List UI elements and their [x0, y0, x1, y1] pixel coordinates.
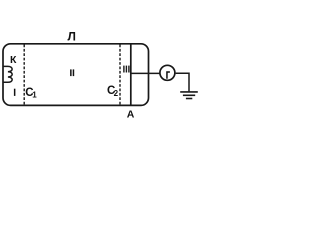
wire anode to galvanometer	[131, 72, 160, 74]
anode hatching (III marks)	[123, 66, 124, 73]
region I label	[14, 89, 16, 96]
svg-text:1: 1	[32, 91, 37, 100]
wire galvanometer to ground	[176, 73, 189, 91]
label Г (galvanometer letter)	[166, 71, 170, 79]
svg-text:Л: Л	[67, 30, 75, 44]
cathode heater K (filament coil on left wall)	[3, 66, 12, 82]
grid C2 (dashed)	[119, 45, 121, 106]
tube envelope Л (klystron body)	[3, 44, 149, 106]
region II label	[70, 69, 72, 76]
grid C1 (dashed)	[23, 45, 25, 106]
ground	[180, 91, 198, 93]
svg-text:2: 2	[114, 89, 119, 98]
svg-text:К: К	[10, 54, 17, 66]
anode plate A (vertical line)	[130, 45, 132, 106]
galvanometer Г	[160, 65, 175, 80]
svg-text:А: А	[127, 109, 135, 121]
